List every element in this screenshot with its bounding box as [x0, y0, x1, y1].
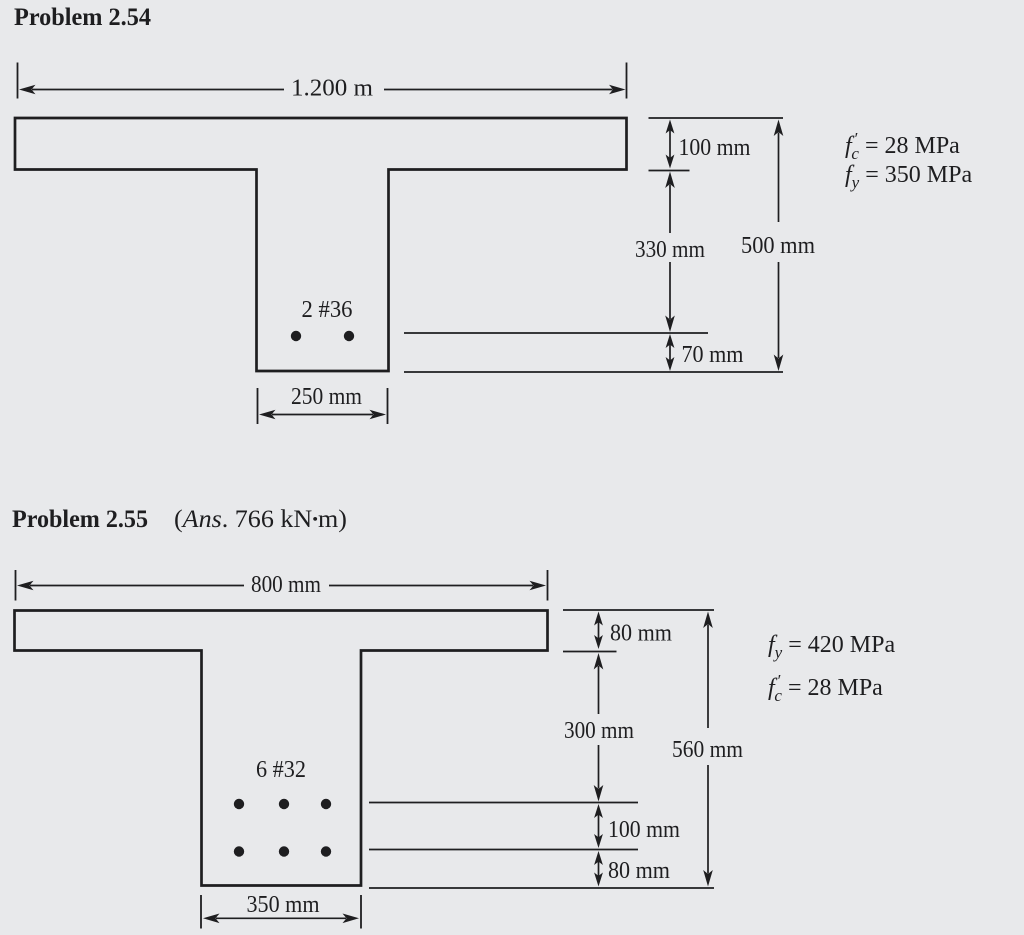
steel centroid line (2.54) [404, 332, 708, 334]
svg-text:100 mm: 100 mm [608, 817, 680, 843]
top extension line (2.54 right) [649, 117, 784, 119]
dimension arrow 100 mm (2.55) [594, 804, 603, 818]
svg-text:100 mm: 100 mm [679, 135, 751, 161]
dimension arrow 560 mm [703, 612, 713, 629]
rebar dot 6 (2.55) [321, 846, 331, 856]
T-beam section outline (2.55) [15, 611, 548, 886]
svg-text:Problem 2.54: Problem 2.54 [14, 4, 151, 31]
svg-text:f′c = 28 MPa: f′c = 28 MPa [768, 671, 883, 705]
svg-text:Problem 2.55: Problem 2.55 [12, 506, 148, 533]
dimension arrow 80 mm lower [594, 851, 603, 865]
dimension line 1.200 m [19, 85, 36, 95]
extension tick left (1.200 m dim) [17, 63, 19, 99]
dimension arrow 70 mm [666, 334, 675, 348]
rebar dot 2 (2.55) [279, 799, 289, 809]
svg-text:500 mm: 500 mm [741, 233, 815, 259]
svg-text:330 mm: 330 mm [635, 237, 705, 263]
flange-bottom tick (2.55) [563, 651, 617, 653]
flange-bottom tick (2.54) [649, 170, 690, 172]
T-beam section outline (2.54) [15, 118, 627, 371]
svg-text:fy = 350 MPa: fy = 350 MPa [845, 162, 972, 192]
dimension line 350 mm [203, 914, 220, 924]
bottom extension line (2.54) [404, 371, 783, 373]
dimension arrow 100 mm [666, 120, 675, 134]
extension tick left (350 mm) [200, 895, 202, 929]
svg-text:fy = 420 MPa: fy = 420 MPa [768, 632, 895, 662]
svg-text:800 mm: 800 mm [251, 572, 321, 598]
dimension line 800 mm [17, 581, 34, 591]
svg-text:1.200 m: 1.200 m [291, 76, 373, 102]
bottom extension line (2.55) [369, 887, 714, 889]
svg-text:350 mm: 350 mm [247, 892, 320, 918]
dimension line 250 mm [259, 410, 276, 420]
extension tick right (250 mm) [387, 388, 389, 424]
svg-text:560 mm: 560 mm [672, 737, 743, 763]
extension tick left (250 mm) [257, 388, 259, 424]
svg-text:80 mm: 80 mm [610, 621, 672, 647]
extension tick right (350 mm) [360, 895, 362, 929]
rebar dot 3 (2.55) [321, 799, 331, 809]
steel row line 2 (2.55) [369, 849, 638, 851]
extension tick right (800 mm dim) [547, 570, 549, 601]
dimension arrow 80 mm upper [594, 612, 603, 626]
extension tick left (800 mm dim) [15, 570, 17, 601]
svg-text:2 #36: 2 #36 [302, 297, 353, 323]
svg-text:300 mm: 300 mm [564, 718, 634, 744]
svg-text:250 mm: 250 mm [291, 384, 362, 410]
dimension arrow 500 mm [774, 120, 784, 137]
svg-text:f′c = 28 MPa: f′c = 28 MPa [845, 129, 960, 163]
svg-text:(Ans. 766 kN•m): (Ans. 766 kN•m) [174, 506, 347, 533]
svg-text:6 #32: 6 #32 [256, 757, 306, 783]
rebar dot B (2.54) [344, 331, 354, 341]
rebar dot 4 (2.55) [234, 846, 244, 856]
top extension line (2.55 right) [563, 609, 714, 611]
rebar dot A (2.54) [291, 331, 301, 341]
rebar dot 5 (2.55) [279, 846, 289, 856]
extension tick right (1.200 m dim) [626, 63, 628, 99]
dimension arrow 300 mm [594, 653, 604, 670]
rebar dot 1 (2.55) [234, 799, 244, 809]
svg-text:80 mm: 80 mm [608, 858, 670, 884]
steel row line 1 (2.55) [369, 802, 638, 804]
svg-text:70 mm: 70 mm [682, 342, 744, 368]
dimension arrow 330 mm [665, 172, 675, 189]
